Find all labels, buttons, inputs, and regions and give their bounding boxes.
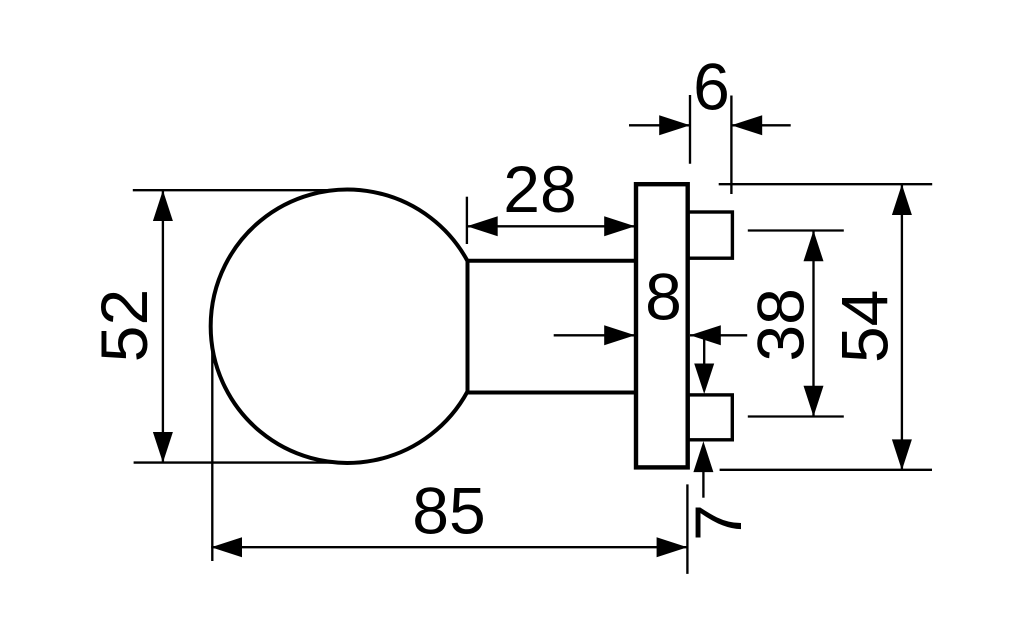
svg-text:6: 6 xyxy=(693,49,730,123)
svg-text:28: 28 xyxy=(503,152,576,226)
svg-text:54: 54 xyxy=(827,290,901,363)
svg-text:7: 7 xyxy=(681,504,755,541)
svg-text:8: 8 xyxy=(645,260,682,334)
svg-text:52: 52 xyxy=(87,289,161,362)
svg-text:38: 38 xyxy=(743,288,817,361)
svg-text:85: 85 xyxy=(412,474,485,548)
